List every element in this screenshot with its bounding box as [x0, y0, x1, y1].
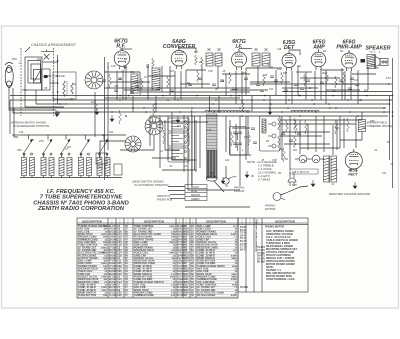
- wire vert: [147, 66, 149, 100]
- wire wafer down: [94, 92, 96, 137]
- svg-text:R14: R14: [37, 58, 42, 61]
- svg-text:R17: R17: [67, 147, 72, 149]
- capacitor: [256, 84, 260, 85]
- wire V2 pin2: [180, 71, 182, 100]
- capacitor: [270, 76, 274, 77]
- svg-text:C18: C18: [207, 130, 212, 132]
- wire segment: [110, 81, 150, 83]
- wire vert: [355, 116, 357, 148]
- wire right bus 2: [389, 96, 391, 160]
- IF transformer T1 secondary: [215, 53, 222, 66]
- svg-text:2M: 2M: [263, 75, 267, 77]
- capacitor: [260, 90, 264, 91]
- wire vert: [191, 116, 193, 186]
- wire bus 2: [10, 95, 392, 97]
- capacitor: [212, 84, 216, 85]
- wire segment: [150, 121, 208, 123]
- capacitor: [135, 86, 139, 87]
- capacitor: [320, 82, 324, 83]
- wire sw: [61, 152, 63, 158]
- wire field coil 2: [340, 132, 362, 141]
- resistor strip in box: [262, 119, 266, 133]
- resistor: [335, 120, 338, 134]
- svg-text:C22: C22: [277, 69, 282, 71]
- svg-text:3-88: 3-88: [208, 71, 213, 73]
- wire coil to bus: [132, 96, 134, 112]
- resistor: [163, 130, 166, 144]
- field coil L10: [359, 120, 366, 132]
- dashed boundary right: [53, 48, 55, 116]
- svg-text:2M: 2M: [277, 173, 281, 175]
- wire coil down: [23, 176, 25, 178]
- wire segment: [320, 69, 344, 71]
- capacitor: [339, 80, 343, 81]
- resistor: [187, 128, 190, 142]
- svg-text:2-7 BASS: 2-7 BASS: [257, 178, 270, 182]
- resistor: [295, 120, 298, 134]
- wire arrow stub: [47, 135, 49, 140]
- resistor: [335, 76, 338, 88]
- wire segment: [280, 119, 362, 121]
- wire vert: [289, 116, 291, 170]
- trimmer: [254, 48, 257, 51]
- wire coil row bus: [20, 177, 122, 179]
- wire antenna down 2: [13, 88, 60, 113]
- wire left vert: [9, 100, 11, 134]
- wire ps2: [307, 124, 309, 150]
- wire cable 3: [170, 194, 185, 196]
- resistor: [231, 132, 234, 146]
- wire sw: [23, 152, 25, 158]
- padder box: [42, 69, 51, 90]
- wire bus 8: [104, 97, 240, 99]
- svg-text:R21: R21: [335, 128, 340, 130]
- wire vert: [199, 116, 201, 168]
- wire left vert2: [14, 108, 18, 137]
- resistor: [263, 74, 266, 86]
- resistor: [305, 120, 308, 134]
- wire loop bottom 2: [36, 90, 68, 104]
- chassis ground symbol: [353, 182, 357, 189]
- svg-text:3-88: 3-88: [244, 137, 249, 139]
- wire padder out: [50, 82, 58, 84]
- svg-text:2M: 2M: [198, 62, 202, 64]
- svg-text:P: P: [186, 220, 187, 222]
- grid coil L3: [71, 83, 73, 94]
- oscillator coil L2: [63, 81, 67, 96]
- resistor R2: [152, 58, 155, 68]
- wire coil down2: [107, 176, 109, 178]
- svg-text:R21: R21: [177, 126, 182, 128]
- wire lamp3: [320, 158, 324, 160]
- wire ps1: [299, 120, 301, 154]
- capacitor: [294, 84, 298, 85]
- wire between boxes: [247, 116, 249, 155]
- ground drum: [221, 177, 225, 184]
- wire sw: [43, 152, 45, 158]
- ground mid: [268, 108, 272, 115]
- wire wafer to coils: [100, 141, 126, 160]
- wire switch bank 2: [194, 116, 196, 170]
- capacitor: [348, 88, 352, 89]
- svg-text:84-71: 84-71: [240, 248, 247, 251]
- wire coil down: [43, 176, 45, 178]
- wire V4 pin2: [291, 71, 293, 104]
- resistor: [119, 110, 122, 124]
- wire vert: [325, 70, 327, 104]
- wire vert: [185, 70, 187, 88]
- svg-text:No: No: [185, 222, 187, 224]
- wire vert: [139, 72, 141, 95]
- svg-text:C22: C22: [109, 132, 114, 134]
- svg-text:RECT: RECT: [348, 173, 358, 177]
- switch contact bank 1: [168, 118, 189, 131]
- IF transformer T2 secondary: [262, 53, 270, 66]
- wire chassis divider 2: [107, 62, 109, 150]
- band coil unit 3: [59, 158, 64, 176]
- wire loop to switch: [42, 61, 58, 63]
- wire vert: [281, 116, 283, 160]
- wire phono1: [230, 120, 251, 155]
- band coil unit 5: [97, 158, 102, 176]
- svg-text:C22: C22: [130, 72, 135, 74]
- svg-text:DESCRIPTION: DESCRIPTION: [144, 220, 165, 224]
- tube V2 6A8G converter: [171, 47, 187, 69]
- tube V5 6F5G amp: [311, 49, 326, 70]
- resistor: [95, 100, 98, 114]
- wire V5 pin: [314, 71, 316, 100]
- wire vert: [297, 66, 299, 95]
- svg-text:C22: C22: [269, 89, 274, 91]
- wire V3 pin2: [241, 71, 243, 104]
- capacitor: [244, 78, 248, 79]
- wire arrow stub: [65, 135, 67, 140]
- svg-text:P: P: [192, 220, 193, 222]
- wire vert: [341, 68, 343, 100]
- svg-text:25M: 25M: [11, 59, 17, 61]
- wire segment: [230, 89, 268, 91]
- wire pickup: [225, 166, 227, 178]
- wire field coil: [361, 112, 363, 120]
- resistor: [229, 72, 232, 84]
- svg-text:2M: 2M: [123, 59, 127, 61]
- wire segment: [280, 123, 356, 125]
- wire vert: [125, 66, 127, 100]
- ground V2: [176, 116, 180, 123]
- svg-text:PWR-AMP: PWR-AMP: [336, 45, 362, 51]
- trimmer: [207, 48, 210, 51]
- wire segment: [250, 83, 390, 85]
- wire sw: [80, 152, 82, 158]
- svg-text:P: P: [127, 220, 128, 222]
- wire chassis divider: [104, 57, 106, 180]
- svg-text:P: P: [119, 220, 120, 222]
- wire V1 pin2: [122, 71, 124, 100]
- svg-text:3-88: 3-88: [333, 170, 338, 172]
- wire segment: [282, 131, 330, 133]
- tube V7 6X5G rectifier: [345, 149, 362, 172]
- capacitor: [102, 80, 106, 81]
- wire coil down2: [31, 176, 33, 178]
- svg-text:R14: R14: [123, 66, 128, 69]
- svg-text:86-169: 86-169: [257, 261, 265, 264]
- wire vert: [159, 116, 161, 168]
- bandswitch wafer S1C: [125, 136, 141, 152]
- table rows: [78, 225, 238, 297]
- ground ps: [311, 180, 315, 187]
- phono pickup: [223, 177, 237, 184]
- svg-text:2M: 2M: [214, 89, 218, 91]
- svg-text:No: No: [241, 222, 243, 224]
- wire bus 1b: [282, 91, 392, 93]
- svg-text:R17: R17: [194, 52, 199, 54]
- switch box: [53, 72, 76, 99]
- svg-text:3-88: 3-88: [272, 160, 277, 162]
- wire vert: [167, 116, 169, 160]
- svg-text:IN AUTOMATIC POSITION: IN AUTOMATIC POSITION: [135, 183, 170, 187]
- switch contact bank 2: [168, 133, 189, 146]
- wire lamp: [295, 158, 299, 160]
- output transformer T3: [367, 55, 375, 69]
- resistor: [347, 118, 350, 132]
- grid cap wire V4: [289, 50, 300, 55]
- grid cap wire V3: [239, 48, 252, 50]
- wire coil down2: [69, 176, 71, 178]
- svg-text:R21: R21: [322, 73, 327, 75]
- resistor: [242, 100, 245, 112]
- leader line: [25, 47, 30, 52]
- wire vert: [367, 67, 369, 90]
- wire segment: [330, 83, 360, 85]
- svg-text:2M: 2M: [278, 149, 282, 151]
- svg-text:R21: R21: [210, 173, 215, 175]
- wire coil down2: [88, 176, 90, 178]
- resistor: [294, 136, 297, 148]
- wire segment: [222, 73, 250, 75]
- wire segment: [326, 89, 360, 91]
- wire V5 pin2: [320, 71, 322, 100]
- wire mid4: [195, 120, 197, 172]
- svg-text:25M: 25M: [21, 90, 27, 92]
- svg-text:PUSH BUTTON: PUSH BUTTON: [78, 294, 96, 297]
- pilot lamp 2: [312, 155, 320, 163]
- wire vert: [161, 66, 163, 92]
- wire segment: [300, 147, 340, 149]
- svg-text:115 V. 60 CYC.: 115 V. 60 CYC.: [292, 170, 310, 174]
- switch contact bank 3: [168, 148, 189, 162]
- wire vert: [275, 70, 277, 95]
- ground switch: [95, 108, 99, 115]
- wire segment: [280, 135, 322, 137]
- resistor: [278, 136, 281, 148]
- wire arrow stub: [85, 135, 87, 140]
- svg-text:BROWN: BROWN: [191, 194, 200, 197]
- wire cable 1: [168, 186, 185, 188]
- svg-text:BLUE: BLUE: [191, 190, 198, 193]
- capacitor: [281, 133, 285, 134]
- wire bus 1: [104, 87, 250, 89]
- svg-text:PHONO POS.: PHONO POS.: [157, 198, 173, 201]
- svg-text:C22: C22: [225, 160, 230, 162]
- svg-text:C26: C26: [117, 294, 122, 297]
- resistor R15: [248, 132, 251, 145]
- wire bus 7: [150, 115, 388, 117]
- wire coil down: [99, 176, 101, 178]
- ground pickup: [245, 171, 249, 178]
- svg-text:PERMANENT MAGNET ASSEMBLY: PERMANENT MAGNET ASSEMBLY: [255, 218, 258, 252]
- wire coil down: [80, 176, 82, 178]
- tube V4 6J5G det: [282, 51, 296, 71]
- speaker LS1: [376, 54, 389, 69]
- capacitor: [220, 80, 224, 81]
- svg-text:ZENITH RADIO CORPORATION: ZENITH RADIO CORPORATION: [37, 206, 125, 212]
- oscillator coil L5: [152, 68, 160, 90]
- right table text: [240, 218, 298, 289]
- svg-text:71-318: 71-318: [109, 294, 117, 297]
- IF transformer T1 primary: [206, 53, 213, 66]
- svg-text:P: P: [179, 220, 180, 222]
- resistor: [304, 74, 307, 86]
- svg-text:C13: C13: [354, 80, 359, 82]
- wire switch bank: [191, 110, 193, 186]
- wire vert: [305, 72, 307, 100]
- capacitor: [297, 133, 301, 134]
- wire mid2: [172, 112, 196, 160]
- wire phono cable: [185, 206, 250, 208]
- wire V1 pin: [116, 71, 118, 100]
- wire segment: [300, 77, 340, 79]
- svg-text:C13: C13: [388, 84, 393, 86]
- wire wafer down: [120, 135, 154, 150]
- tube V6 6F6G pwr-amp: [342, 50, 357, 71]
- resistor: [167, 76, 170, 88]
- wire segment: [186, 69, 206, 71]
- padder box 2: [114, 164, 122, 175]
- phono switch box B: [260, 116, 281, 151]
- resistor: [286, 120, 289, 132]
- wire segment: [296, 71, 312, 73]
- svg-text:GREEN: GREEN: [191, 198, 200, 201]
- wire segment: [124, 89, 160, 91]
- svg-text:C18: C18: [277, 49, 282, 51]
- wire arrow stub: [103, 135, 105, 140]
- wire vert ps: [332, 125, 334, 155]
- svg-text:P: P: [111, 220, 112, 222]
- trimmer: [264, 48, 267, 51]
- wire vert: [357, 70, 359, 104]
- resistor: [141, 78, 144, 90]
- capacitor: [300, 88, 304, 89]
- RF coil L4: [131, 74, 138, 93]
- wire left bus: [57, 55, 59, 104]
- phono motor: [273, 193, 285, 201]
- wire vert: [239, 116, 241, 186]
- wire vert: [339, 116, 341, 148]
- svg-text:3-88: 3-88: [371, 65, 376, 67]
- wire vert: [323, 116, 325, 152]
- parts list table: [77, 218, 308, 298]
- capacitor: [332, 90, 336, 91]
- wave trap box: [96, 153, 107, 164]
- wire coil to bus: [269, 96, 271, 112]
- resistor R5: [195, 55, 198, 65]
- svg-text:R21: R21: [297, 66, 302, 68]
- svg-text:MOTOR: MOTOR: [265, 207, 275, 211]
- svg-text:2M: 2M: [184, 124, 188, 126]
- wire bus mid: [140, 91, 250, 93]
- wire coil to bus: [155, 96, 157, 112]
- wire lower bus left: [12, 134, 20, 136]
- band coil unit 4: [79, 158, 84, 176]
- svg-text:DESCRIPTION: DESCRIPTION: [82, 220, 103, 224]
- svg-text:BLACK: BLACK: [191, 186, 199, 189]
- power transformer T4: [324, 156, 330, 182]
- wire vert: [336, 120, 338, 150]
- svg-text:CHASSIS ARRANGEMENT: CHASSIS ARRANGEMENT: [31, 43, 77, 47]
- wire vert: [257, 66, 259, 84]
- svg-text:No: No: [127, 222, 129, 224]
- IF transformer T2 primary: [252, 53, 260, 66]
- trimmer: [217, 48, 220, 51]
- wire V4 pin: [285, 71, 287, 104]
- wire motor: [281, 186, 308, 195]
- wire bus 5: [10, 107, 386, 109]
- wire V2 pin: [174, 71, 176, 100]
- svg-text:C22: C22: [54, 76, 59, 78]
- svg-text:6-55: 6-55: [386, 78, 391, 80]
- bandswitch wafer S1B: [145, 117, 163, 135]
- svg-text:6-55: 6-55: [292, 185, 297, 187]
- resistor R6: [201, 57, 204, 67]
- capacitor: [232, 88, 236, 89]
- svg-text:25M: 25M: [16, 150, 22, 152]
- capacitor: [118, 78, 122, 79]
- wire segment: [180, 83, 210, 85]
- svg-text:PHONO MOTOR: PHONO MOTOR: [265, 226, 284, 229]
- svg-text:DESCRIPTION: DESCRIPTION: [275, 220, 296, 224]
- bandswitch wafer S1A: [85, 71, 103, 89]
- wire vert: [217, 66, 219, 88]
- choke on bus 2: [205, 110, 250, 112]
- svg-text:DENOTES CHASSIS GROUND: DENOTES CHASSIS GROUND: [329, 192, 370, 196]
- capacitor: [251, 128, 255, 129]
- resistor R22: [343, 72, 346, 84]
- capacitor: [364, 90, 368, 91]
- grid cap wire V1: [120, 48, 132, 50]
- wire segment: [282, 87, 318, 89]
- wire cable 4: [170, 198, 185, 200]
- dashed boundary left: [20, 48, 22, 116]
- wire mid3: [188, 116, 240, 190]
- grid cap wire V2: [178, 48, 196, 53]
- wire phono2: [235, 124, 237, 148]
- wire coil row top bus: [20, 134, 126, 136]
- svg-text:P: P: [249, 220, 250, 222]
- svg-text:455 K.C.: 455 K.C.: [97, 166, 107, 170]
- wire segment: [148, 75, 175, 77]
- wire coil down2: [51, 176, 53, 178]
- wire segment: [104, 71, 140, 73]
- wire bus 3: [10, 99, 392, 101]
- wire vert: [225, 74, 227, 96]
- resistor: [326, 72, 329, 84]
- tube V1 6K7G RF: [114, 48, 130, 70]
- wire segment: [232, 127, 250, 129]
- capacitor: [253, 142, 257, 143]
- resistor: [197, 70, 200, 82]
- capacitor: [130, 92, 134, 93]
- band coil unit 1: [22, 158, 27, 176]
